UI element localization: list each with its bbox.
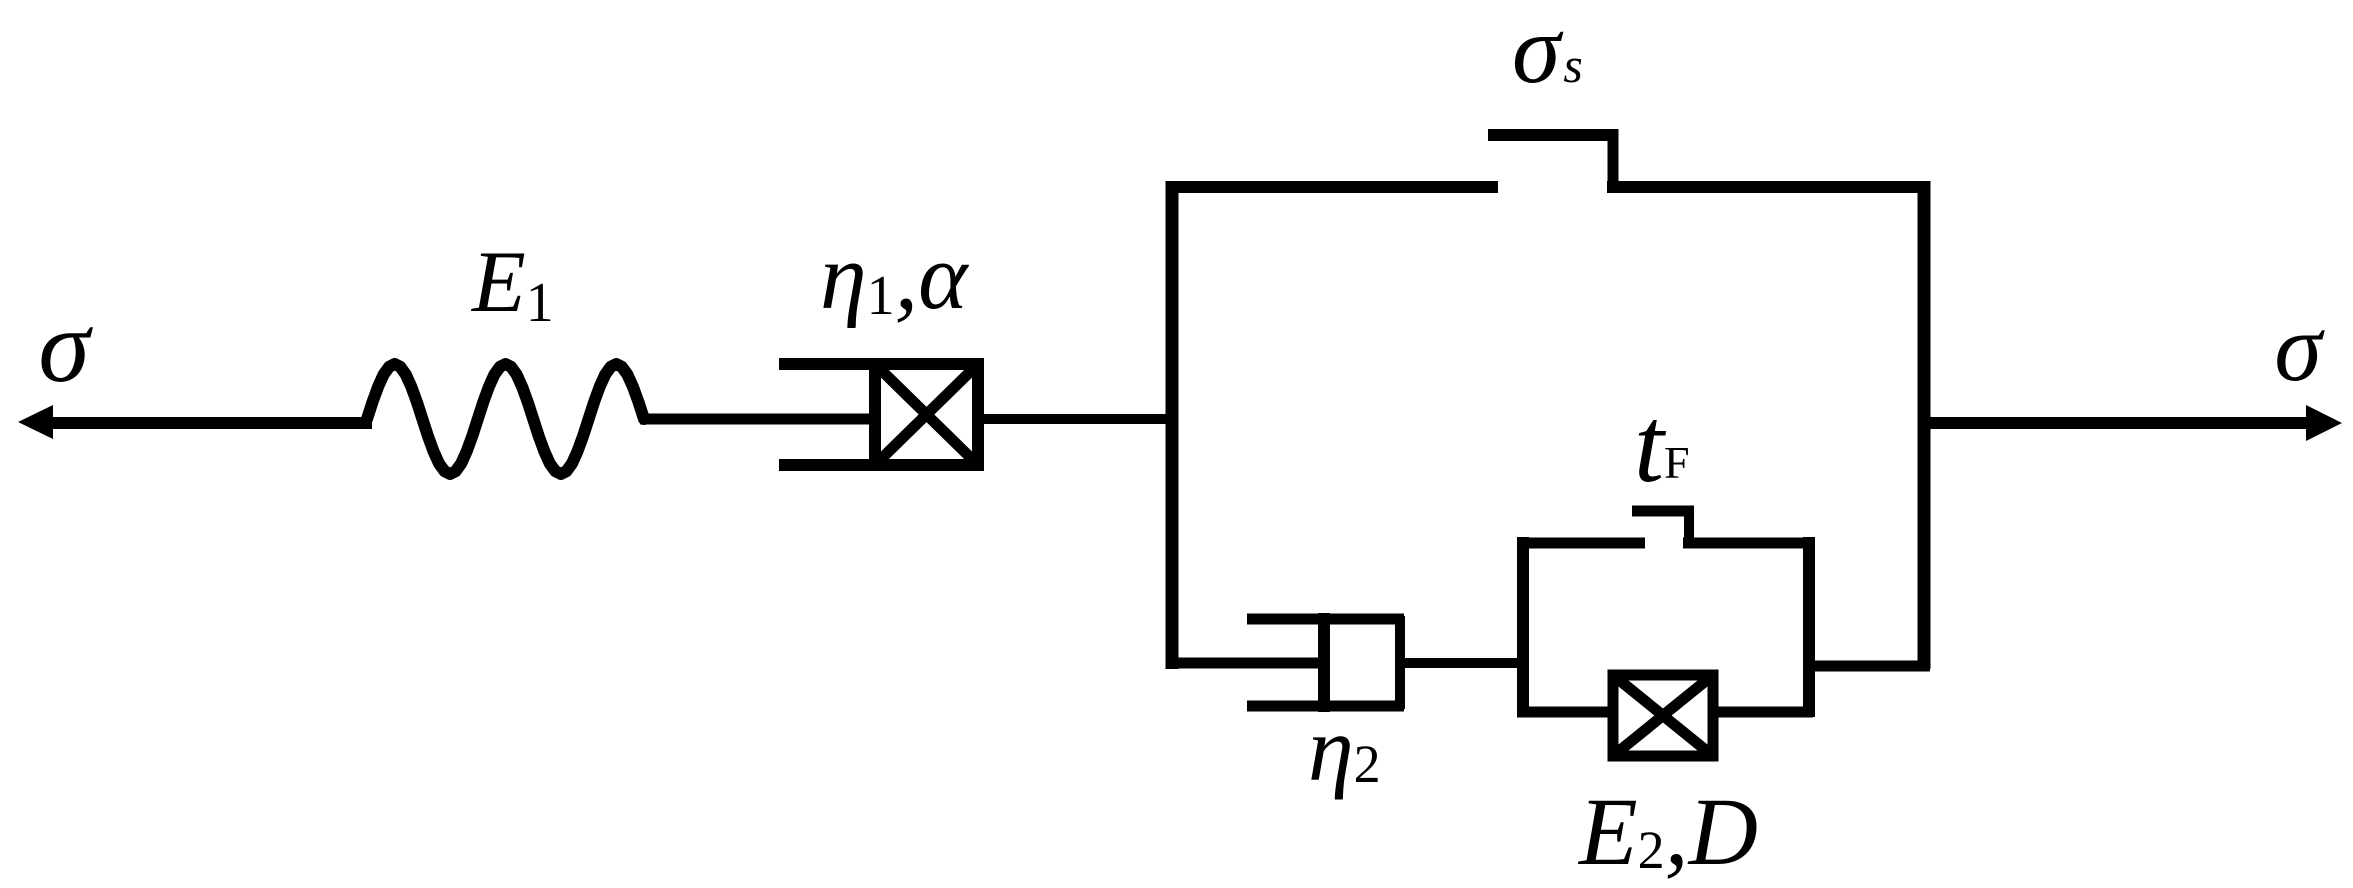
wire: right arrow shaft bbox=[1930, 417, 2312, 429]
svg-text:σ: σ bbox=[2274, 294, 2325, 401]
inner loop right vertical bbox=[1803, 537, 1815, 717]
dashpot U1 (eta1,alpha) fork top line bbox=[779, 358, 984, 370]
wire: inner loop to outer right vertical bbox=[1809, 661, 1930, 672]
dashpot eta2 fork top line bbox=[1247, 614, 1404, 625]
svg-text:tF: tF bbox=[1634, 386, 1690, 505]
svg-text:σs: σs bbox=[1512, 0, 1583, 104]
svg-text:η2: η2 bbox=[1308, 698, 1381, 800]
wire: eta2 to inner loop bbox=[1400, 658, 1529, 668]
inner loop left vertical bbox=[1517, 537, 1529, 713]
dashpot eta2 piston plate bbox=[1318, 613, 1330, 712]
crossed box E2,D outline bbox=[1613, 675, 1713, 756]
dashpot U1 right cap bbox=[972, 358, 984, 471]
friction slider sigma_s plate bbox=[1488, 129, 1617, 141]
friction slider tF connector bbox=[1684, 506, 1694, 548]
dashpot U1 cross X bbox=[878, 367, 975, 462]
wire: spring to dashpot1 bbox=[640, 414, 872, 425]
right arrowhead bbox=[2306, 405, 2342, 441]
svg-text:E2,D: E2,D bbox=[1577, 778, 1758, 885]
friction slider sigma_s connector bbox=[1608, 129, 1619, 192]
inner loop top branch left segment bbox=[1517, 538, 1645, 549]
friction slider tF plate bbox=[1632, 506, 1694, 517]
wire: dashpot1 to outer loop bbox=[984, 414, 1172, 424]
crossed box E2,D diagonals bbox=[1613, 675, 1713, 756]
outer loop left vertical bbox=[1166, 181, 1179, 669]
dashpot eta2 right cap bbox=[1395, 616, 1405, 709]
inner loop top branch right segment bbox=[1683, 538, 1813, 549]
dashpot U1 fork bottom line bbox=[779, 459, 984, 471]
svg-text:η1,α: η1,α bbox=[820, 225, 969, 329]
outer loop right vertical bbox=[1918, 181, 1931, 669]
svg-text:σ: σ bbox=[38, 289, 93, 404]
left arrowhead bbox=[18, 405, 53, 439]
outer loop top branch right segment bbox=[1607, 181, 1930, 193]
outer loop bottom branch left segment (rod into eta2) bbox=[1166, 658, 1330, 669]
dashpot U1 piston plate bbox=[869, 358, 881, 471]
dashpot eta2 fork bottom line bbox=[1247, 701, 1404, 712]
outer loop top branch left segment bbox=[1166, 181, 1498, 193]
svg-text:E1: E1 bbox=[470, 234, 554, 334]
inner loop bottom branch right segment bbox=[1714, 707, 1813, 718]
spring E1 bbox=[367, 364, 644, 474]
inner loop bottom branch left segment bbox=[1517, 707, 1612, 718]
wire: left arrow shaft bbox=[48, 417, 372, 429]
